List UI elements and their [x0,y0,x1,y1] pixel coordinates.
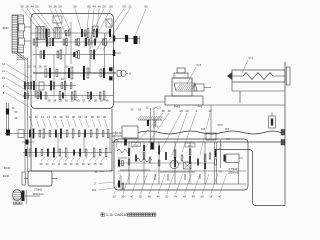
svg-text:40: 40 [130,195,134,199]
svg-text:40: 40 [218,195,222,199]
svg-text:11: 11 [58,162,61,166]
svg-text:20: 20 [122,5,126,9]
svg-text:53: 53 [66,115,70,119]
svg-text:48: 48 [90,115,94,119]
svg-text:28: 28 [25,5,29,9]
svg-text:36: 36 [78,115,82,119]
svg-text:12: 12 [2,62,6,66]
svg-text:Φ230: Φ230 [3,175,10,178]
svg-text:48: 48 [192,195,196,199]
svg-text:3-11: 3-11 [106,213,113,217]
svg-text:58: 58 [53,99,57,103]
svg-text:30: 30 [35,115,39,119]
svg-text:XXII: XXII [134,145,139,147]
svg-text:2800r/min: 2800r/min [228,172,239,175]
svg-text:50: 50 [144,5,148,9]
svg-text:1450r/min: 1450r/min [32,193,44,196]
svg-text:18: 18 [39,162,43,166]
svg-text:0.75kW: 0.75kW [229,167,238,171]
svg-text:CA6140: CA6140 [115,213,128,217]
svg-text:80: 80 [105,99,109,103]
svg-text:10: 10 [2,76,6,80]
svg-text:Φ130: Φ130 [4,167,11,170]
svg-text:P=1: P=1 [249,56,254,60]
svg-text:44: 44 [174,195,178,199]
svg-text:26: 26 [84,115,88,119]
svg-text:20: 20 [45,162,49,166]
svg-text:35: 35 [103,115,107,119]
svg-text:44: 44 [30,5,34,9]
svg-text:28: 28 [97,115,101,119]
svg-text:XX: XX [226,138,230,141]
svg-text:m=2.5: m=2.5 [153,106,161,110]
svg-text:40: 40 [167,109,171,113]
svg-text:30: 30 [121,195,125,199]
svg-text:50: 50 [58,5,62,9]
svg-text:11: 11 [2,69,5,73]
svg-text:21: 21 [128,5,132,9]
svg-text:36: 36 [20,5,24,9]
svg-text:XIX: XIX [225,128,229,131]
svg-text:36: 36 [69,162,73,166]
svg-text:50: 50 [65,99,69,103]
svg-text:50: 50 [71,99,75,103]
svg-text:28: 28 [59,115,63,119]
svg-text:14: 14 [51,162,55,166]
svg-text:28: 28 [63,162,67,166]
svg-text:26: 26 [100,99,104,103]
svg-text:21: 21 [47,115,51,119]
svg-text:55: 55 [35,5,39,9]
svg-text:25: 25 [75,162,79,166]
svg-text:80: 80 [87,5,91,9]
svg-text:44: 44 [97,5,101,9]
svg-text:28: 28 [53,115,57,119]
svg-text:10: 10 [112,195,116,199]
svg-text:36: 36 [81,162,85,166]
svg-text:50: 50 [102,5,106,9]
svg-text:29: 29 [139,195,143,199]
svg-text:63: 63 [76,99,80,103]
svg-text:26: 26 [59,99,63,103]
svg-text:29: 29 [185,109,189,113]
svg-text:P=5: P=5 [197,63,202,67]
svg-text:23: 23 [28,115,32,119]
svg-text:38: 38 [53,5,57,9]
svg-text:58: 58 [94,99,98,103]
svg-text:XXXI: XXXI [188,145,193,147]
svg-text:100: 100 [92,188,97,192]
svg-text:XXVI: XXVI [217,125,223,127]
svg-text:59: 59 [200,195,204,199]
svg-text:28: 28 [179,109,183,113]
svg-text:XXV: XXV [153,126,158,129]
svg-text:50: 50 [109,5,113,9]
svg-text:18: 18 [209,195,213,199]
svg-text:7.5kW: 7.5kW [34,188,42,192]
svg-text:44: 44 [156,195,160,199]
svg-text:39: 39 [48,5,52,9]
svg-text:30: 30 [72,115,76,119]
svg-text:25: 25 [93,162,97,166]
svg-text:44: 44 [92,5,96,9]
svg-text:48: 48 [99,162,103,166]
svg-text:Φ230: Φ230 [2,27,9,30]
svg-text:58: 58 [47,99,51,103]
svg-text:48: 48 [161,109,165,113]
svg-text:48: 48 [208,109,212,113]
svg-text:14: 14 [41,115,45,119]
svg-text:50: 50 [88,99,92,103]
svg-text:50: 50 [165,195,169,199]
svg-text:48: 48 [183,195,187,199]
svg-text:97: 97 [82,99,86,103]
svg-text:50: 50 [73,5,77,9]
svg-text:32: 32 [87,162,91,166]
svg-text:XXII: XXII [201,129,206,131]
svg-text:48: 48 [148,195,152,199]
svg-text:VI: VI [129,73,132,76]
